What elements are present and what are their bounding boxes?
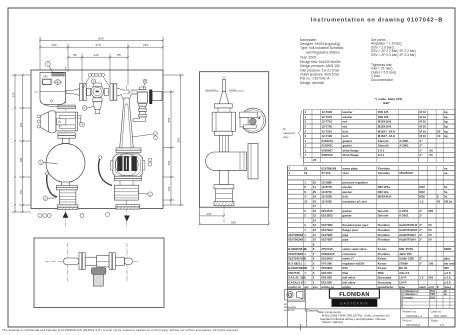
- svg-text:M12: M12: [419, 185, 425, 189]
- svg-text:Flonidan: Flonidan: [378, 238, 390, 242]
- svg-text:Alfa 3.0: Alfa 3.0: [399, 271, 410, 275]
- svg-text:25: 25: [313, 158, 317, 162]
- meter slots: [117, 156, 136, 171]
- svg-text:gasket: gasket: [343, 139, 352, 143]
- svg-text:800: 800: [177, 137, 181, 142]
- svg-text:M 10: M 10: [420, 120, 427, 124]
- svg-text:ball valve: ball valve: [342, 276, 355, 280]
- svg-text:kg: kg: [444, 134, 448, 138]
- balloon stack clamshell: [37, 115, 40, 128]
- svg-text:washer: washer: [342, 115, 354, 119]
- svg-text:Smooth: Smooth: [378, 139, 389, 143]
- svg-text:114 P: 114 P: [399, 276, 406, 280]
- svg-text:M 12: M 12: [420, 110, 427, 114]
- cone tower: [120, 98, 134, 148]
- svg-text:295: 295: [167, 160, 171, 165]
- svg-text:Documentation: Documentation: [371, 78, 393, 82]
- svg-text:gasket: gasket: [342, 209, 351, 213]
- svg-text:023-805: 023-805: [321, 276, 332, 280]
- svg-text:370: 370: [11, 92, 15, 97]
- svg-text:a 2.6: a 2.6: [444, 271, 451, 275]
- svg-text:0103503: 0103503: [321, 214, 333, 218]
- svg-text:12-0885: 12-0885: [321, 180, 332, 184]
- company logo glyphs: [285, 290, 305, 301]
- svg-text:0511: 0511: [430, 291, 436, 293]
- svg-text:and Regulators Station: and Regulators Station: [306, 50, 340, 54]
- bottom view stem down: [93, 274, 103, 286]
- pipe elbow cabinet to filter: [44, 105, 58, 107]
- balloon 8: [143, 79, 147, 89]
- pilot regulator under valve: [93, 98, 102, 114]
- svg-text:name plate: name plate: [343, 166, 358, 170]
- svg-text:bolt: bolt: [342, 195, 347, 199]
- svg-text:Alu2/070304: Alu2/070304: [399, 238, 416, 242]
- svg-text:blind flange: blind flange: [343, 148, 360, 152]
- svg-text:RC 20: RC 20: [399, 266, 408, 270]
- svg-text:kg: kg: [444, 115, 448, 119]
- svg-text:0107082: 0107082: [321, 223, 333, 227]
- svg-text:150: 150: [428, 261, 433, 265]
- svg-text:07-150: 07-150: [322, 171, 331, 175]
- svg-text:washer: washer: [342, 110, 354, 114]
- meter body M6: [111, 154, 145, 178]
- svg-text:M 12: M 12: [420, 115, 427, 119]
- svg-text:14: 14: [313, 218, 317, 222]
- svg-text:17: 17: [313, 204, 317, 208]
- ball valve V2: [114, 181, 138, 200]
- svg-text:GASTEKNIK: GASTEKNIK: [340, 301, 369, 305]
- svg-text:GP2: GP2: [43, 76, 48, 78]
- balloon 2: [39, 160, 57, 165]
- svg-text:0107087: 0107087: [321, 238, 333, 242]
- balloon stack meter: [148, 158, 152, 166]
- balloon 5: [91, 79, 96, 84]
- FLONIDAN logo: [329, 289, 379, 298]
- pipe stub right: [152, 91, 162, 100]
- svg-text:10: 10: [437, 134, 441, 138]
- svg-text:12-7990: 12-7990: [322, 110, 333, 114]
- svg-text:12-2052: 12-2052: [321, 199, 332, 203]
- svg-text:1.5: 1.5: [419, 276, 423, 280]
- hatch under middle valve: [215, 202, 233, 205]
- svg-text:rivet: rivet: [343, 171, 349, 175]
- balloon cluster bottom left: [38, 214, 84, 218]
- svg-text:meter 2": meter 2": [342, 257, 354, 261]
- svg-text:FLONIDAN: FLONIDAN: [339, 292, 369, 298]
- svg-text:Alu2/070304: Alu2/070304: [399, 233, 416, 237]
- right panel divider line: [287, 166, 289, 327]
- svg-text:18: 18: [313, 199, 317, 203]
- right vertical dimension: [163, 74, 184, 206]
- svg-text:50: 50: [428, 223, 432, 227]
- flange F1: [80, 84, 87, 101]
- svg-text:are in mm: are in mm: [284, 309, 295, 312]
- svg-text:flange spec: flange spec: [342, 228, 358, 232]
- svg-text:0107082X8: 0107082X8: [288, 233, 303, 237]
- svg-text:connector: connector: [342, 252, 357, 256]
- svg-text:bolt: bolt: [343, 129, 348, 133]
- svg-text:-50: -50: [429, 148, 434, 152]
- svg-text:M 16: M 16: [420, 134, 427, 138]
- svg-text:12-7710: 12-7710: [322, 120, 333, 124]
- svg-text:GAS AL-105: GAS AL-105: [288, 276, 305, 280]
- svg-text:bolt: bolt: [343, 134, 348, 138]
- svg-text:safety relief valve: safety relief valve: [342, 247, 366, 251]
- svg-text:Design: windmill: Design: windmill: [300, 81, 324, 85]
- svg-text:only: only: [283, 135, 289, 139]
- svg-text:SSV: SSV: [342, 266, 348, 270]
- middle view valve body: [212, 112, 235, 131]
- balloon 7: [45, 61, 53, 72]
- svg-text:Kosan: Kosan: [378, 247, 387, 251]
- svg-text:Kosan: Kosan: [378, 261, 387, 265]
- svg-text:16: 16: [313, 209, 317, 213]
- svg-text:2-5.1: 2-5.1: [378, 153, 385, 157]
- svg-text:filter: filter: [342, 271, 349, 275]
- svg-text:Kosan: Kosan: [378, 257, 387, 261]
- svg-text:Flonidan: Flonidan: [378, 223, 390, 227]
- svg-text:Smooth: Smooth: [378, 144, 389, 148]
- svg-text:0107084: 0107084: [321, 228, 333, 232]
- svg-text:0103421: 0103421: [322, 144, 334, 148]
- flow arrow up: [63, 212, 69, 218]
- svg-text:22: 22: [313, 180, 317, 184]
- drawing number cells: [403, 310, 448, 327]
- dark flange bar: [149, 90, 152, 105]
- svg-text:Flonidan: Flonidan: [378, 233, 390, 237]
- svg-text:B-2 X8211: B-2 X8211: [288, 261, 302, 265]
- svg-text:M 10: M 10: [420, 125, 427, 129]
- svg-text:023-800: 023-800: [321, 280, 332, 284]
- svg-text:229: 229: [143, 43, 148, 47]
- balloon bottom right assembly: [105, 212, 109, 216]
- svg-text:Flonidan: Flonidan: [378, 166, 390, 170]
- svg-text:12-7190: 12-7190: [322, 134, 333, 138]
- svg-text:A-2001: A-2001: [399, 209, 409, 213]
- svg-text:250: 250: [428, 276, 433, 280]
- svg-text:0107087: 0107087: [321, 233, 333, 237]
- svg-text:0102759X8: 0102759X8: [288, 252, 303, 256]
- svg-text:ea: ea: [444, 166, 448, 170]
- svg-text:kg: kg: [444, 110, 448, 114]
- bottom view frame: [34, 238, 164, 308]
- svg-text:12-7070: 12-7070: [322, 115, 333, 119]
- filter flange stack: [58, 105, 75, 109]
- svg-text:S&P: S&P: [383, 101, 389, 105]
- svg-text:DIN 126: DIN 126: [378, 115, 389, 119]
- svg-text:21: 21: [313, 185, 317, 189]
- svg-text:1 alteration x: 1 alteration x: [403, 293, 418, 296]
- left valve lever: [47, 174, 57, 197]
- svg-text:DIN 125a: DIN 125a: [378, 185, 391, 189]
- svg-text:250: 250: [428, 209, 433, 213]
- svg-text:114 P: 114 P: [399, 280, 406, 284]
- svg-text:M10X16-8: M10X16-8: [378, 120, 392, 124]
- svg-text:5a: 5a: [444, 195, 448, 199]
- svg-text:0107042x–1: 0107042x–1: [406, 314, 422, 318]
- main view frame: [31, 70, 163, 209]
- svg-text:695: 695: [231, 220, 236, 224]
- balloon 1b: [138, 192, 152, 197]
- svg-text:DIN 125: DIN 125: [378, 110, 389, 114]
- svg-text:gasket: gasket: [343, 144, 352, 148]
- svg-text:85: 85: [437, 129, 441, 133]
- filter body U4: [56, 112, 81, 131]
- svg-text:Kosan: Kosan: [378, 266, 387, 270]
- svg-text:600: 600: [444, 266, 449, 270]
- svg-text:1:5: 1:5: [440, 323, 444, 327]
- solenoid body U8: [131, 87, 148, 103]
- svg-text:a 3.6: a 3.6: [444, 280, 451, 284]
- regulator dome circle U2: [46, 144, 85, 183]
- svg-text:A-2001: A-2001: [399, 214, 409, 218]
- svg-text:A-2001: A-2001: [399, 144, 409, 148]
- svg-text:bar and: bar and: [444, 261, 455, 265]
- threaded stem: [133, 104, 146, 122]
- svg-text:This drawing is confidentia: This drawing is confidential and belongs…: [2, 328, 238, 332]
- svg-text:12-7210: 12-7210: [322, 129, 333, 133]
- svg-text:0107042-005: 0107042-005: [288, 257, 305, 261]
- svg-text:Drawing: Drawing: [308, 309, 319, 313]
- bottom view dark flange: [91, 268, 106, 275]
- svg-text:12-7700: 12-7700: [322, 125, 333, 129]
- svg-text:Jafar 200: Jafar 200: [399, 252, 412, 256]
- svg-text:Smooth: Smooth: [378, 209, 389, 213]
- svg-text:11: 11: [313, 233, 316, 237]
- svg-text:279/99: 279/99: [399, 261, 408, 265]
- svg-text:Flonidan: Flonidan: [378, 171, 390, 175]
- svg-text:nut: nut: [343, 125, 348, 129]
- svg-text:washer: washer: [341, 190, 353, 194]
- svg-text:140: 140: [93, 53, 98, 57]
- svg-text:pipe: pipe: [342, 233, 348, 237]
- svg-text:150: 150: [19, 189, 23, 194]
- middle view bottom flange: [214, 131, 232, 152]
- svg-text:x 25 dn: x 25 dn: [229, 89, 237, 91]
- valve lever: [98, 158, 112, 186]
- parts list table: [288, 110, 456, 290]
- svg-text:kg: kg: [444, 129, 448, 133]
- bottom flange left assembly: [58, 205, 79, 210]
- svg-text:M16X45-8: M16X45-8: [378, 195, 392, 199]
- svg-text:albu: albu: [444, 257, 450, 261]
- bottom view centerline v1: [67, 243, 69, 281]
- svg-text:182: 182: [19, 122, 23, 127]
- svg-text:Instrumentation on drawing: Instrumentation on drawing 0107042–B: [311, 18, 443, 24]
- transport-only note: [283, 111, 303, 159]
- svg-text:0 issued: 0 issued: [403, 297, 413, 299]
- svg-text:M10X16-8: M10X16-8: [378, 125, 392, 129]
- middle view dim strip: [198, 207, 269, 225]
- svg-text:45: 45: [437, 199, 441, 203]
- svg-text:50: 50: [428, 238, 432, 242]
- svg-text:85: 85: [73, 53, 77, 57]
- svg-text:Alu2/0703034: Alu2/0703034: [399, 228, 418, 232]
- flow arrow down: [124, 216, 130, 222]
- svg-text:insulation a/1 mm: insulation a/1 mm: [342, 199, 367, 203]
- svg-text:regulator w/SSV: regulator w/SSV: [342, 261, 364, 265]
- svg-text:2-5.1: 2-5.1: [378, 148, 385, 152]
- svg-text:Flonidan: Flonidan: [378, 228, 390, 232]
- pipe centerline: [34, 91, 161, 93]
- regulator centerline: [65, 66, 67, 226]
- svg-text:TRB: TRB: [378, 271, 384, 275]
- svg-text:ea: ea: [444, 171, 448, 175]
- dimension line 200/270/229: [39, 44, 165, 86]
- svg-text:0000007: 0000007: [322, 148, 334, 152]
- safety valve centerline: [126, 85, 128, 228]
- svg-text:pipe: pipe: [342, 238, 348, 242]
- bottom flange right assembly: [116, 205, 140, 209]
- middle view lower stem: [214, 170, 234, 205]
- svg-text:Alu2/0703042: Alu2/0703042: [399, 223, 418, 227]
- svg-text:M 16: M 16: [420, 129, 427, 133]
- svg-text:19: 19: [313, 195, 317, 199]
- svg-text:100: 100: [207, 212, 212, 216]
- middle view centerline: [223, 76, 225, 223]
- bottom view centerline horizontal: [45, 260, 140, 262]
- svg-text:15: 15: [313, 214, 317, 218]
- neck to circle: [58, 133, 75, 144]
- svg-text:198: 198: [19, 157, 23, 162]
- pipe taper right: [117, 89, 129, 96]
- middle view actuator circle: [239, 108, 265, 133]
- diaphragm clamshell: [41, 111, 56, 133]
- nameplate text block: [300, 38, 344, 85]
- revision grid: [401, 289, 455, 308]
- drawing description: [308, 309, 391, 325]
- valve body V5: [87, 83, 109, 98]
- svg-text:blind flange: blind flange: [343, 153, 360, 157]
- fold mark: [299, 324, 301, 331]
- svg-text:0107085X8: 0107085X8: [322, 166, 337, 170]
- svg-text:kg: kg: [444, 125, 448, 129]
- svg-text:2752446: 2752446: [321, 247, 333, 251]
- hatch under left flange: [59, 207, 78, 210]
- svg-text:SRL 25/T9: SRL 25/T9: [399, 247, 413, 251]
- svg-text:Brossway: Brossway: [378, 276, 392, 280]
- flange F2: [110, 84, 117, 101]
- svg-text:DIN 12a: DIN 12a: [378, 190, 389, 194]
- bottom view centerline v2: [126, 243, 128, 281]
- svg-text:Smooth: Smooth: [378, 214, 389, 218]
- svg-text:pressure regulator: pressure regulator: [342, 180, 368, 184]
- svg-text:85: 85: [117, 53, 121, 57]
- flange below meter: [114, 176, 141, 181]
- svg-text:230: 230: [167, 186, 171, 191]
- svg-text:-50: -50: [429, 153, 434, 157]
- svg-text:12-8740: 12-8740: [321, 185, 332, 189]
- svg-text:070-580: 070-580: [321, 261, 332, 265]
- svg-text:800: 800: [98, 36, 103, 40]
- svg-text:Station: Hjørring: Station: Hjørring: [322, 320, 343, 324]
- svg-text:50: 50: [428, 228, 432, 232]
- meter face circle: [116, 154, 139, 177]
- middle view frame: [200, 72, 269, 208]
- svg-text:nut: nut: [343, 120, 348, 124]
- svg-text:12-4256: 12-4256: [321, 195, 332, 199]
- svg-text:21: 21: [304, 199, 308, 203]
- svg-text:13: 13: [313, 223, 317, 227]
- svg-text:023-870: 023-870: [321, 271, 332, 275]
- dimension line 85/140/85: [67, 54, 130, 84]
- svg-text:washer: washer: [341, 185, 353, 189]
- middle view flange disc: [248, 144, 258, 179]
- control cabinet U7: [40, 72, 66, 104]
- svg-text:0107083X8: 0107083X8: [288, 238, 303, 242]
- balloon 4: [80, 118, 85, 126]
- bottom view piping: [64, 253, 133, 270]
- title block: [288, 289, 456, 328]
- balloon 1: [43, 196, 56, 201]
- svg-text:24: 24: [304, 171, 308, 175]
- hatch under right flange: [116, 206, 139, 209]
- svg-text:25 x 25 dn: 25 x 25 dn: [206, 89, 217, 91]
- pipe reducer left: [66, 89, 80, 96]
- svg-text:0103452: 0103452: [321, 257, 333, 261]
- svg-text:0502/0545: 0502/0545: [399, 171, 413, 175]
- balloon 3: [82, 106, 94, 111]
- svg-text:2 alteration xx: 2 alteration xx: [403, 290, 419, 293]
- left vertical dimensions: [12, 74, 32, 213]
- svg-text:0312: 0312: [430, 297, 436, 299]
- svg-text:Scale: Scale: [431, 319, 439, 323]
- svg-text:12: 12: [313, 228, 317, 232]
- svg-text:10: 10: [313, 238, 317, 242]
- svg-text:05384X20: 05384X20: [321, 252, 335, 256]
- svg-text:ball valve: ball valve: [342, 280, 355, 284]
- svg-text:0103473: 0103473: [322, 139, 334, 143]
- svg-text:kg: kg: [444, 120, 448, 124]
- svg-text:M12: M12: [419, 190, 425, 194]
- svg-text:GASALV-07: GASALV-07: [288, 280, 304, 284]
- svg-text:SSV = 2P 2.3 bar(/ 2P 2.: SSV = 2P 2.3 bar(/ 2P 2.3 bar): [371, 53, 416, 57]
- svg-text:0103515: 0103515: [321, 209, 333, 213]
- svg-text:0307546: 0307546: [288, 271, 300, 275]
- svg-text:0402: 0402: [430, 293, 436, 296]
- svg-text:M16X7 -X4-8: M16X7 -X4-8: [378, 129, 395, 133]
- svg-text:a 2.0: a 2.0: [444, 276, 451, 280]
- svg-text:M16X7 -X4.8: M16X7 -X4.8: [378, 134, 395, 138]
- svg-text:555: 555: [167, 117, 171, 122]
- valve under circle: [56, 182, 77, 205]
- svg-text:5a: 5a: [444, 185, 448, 189]
- svg-text:0000012: 0000012: [322, 153, 334, 157]
- svg-text:M16: M16: [419, 195, 425, 199]
- flange above meter: [116, 148, 141, 153]
- svg-text:200: 200: [51, 43, 56, 47]
- svg-text:0703821: 0703821: [321, 266, 333, 270]
- svg-text:5/8.5a: 5/8.5a: [444, 199, 452, 203]
- svg-text:Brossway: Brossway: [378, 280, 392, 284]
- middle view cylinder: [206, 152, 247, 170]
- svg-text:gasket: gasket: [342, 214, 351, 218]
- valve bolt circles: [84, 73, 111, 88]
- footnote: [375, 97, 402, 105]
- svg-text:50: 50: [428, 233, 432, 237]
- top dimension line 800: [39, 37, 165, 71]
- svg-text:0107042x4: 0107042x4: [406, 323, 421, 327]
- svg-text:12-8740: 12-8740: [321, 190, 332, 194]
- svg-text:A-2001: A-2001: [399, 139, 409, 143]
- svg-text:505–2000: 505–2000: [434, 314, 447, 318]
- svg-text:5a: 5a: [444, 190, 448, 194]
- set points text block: [371, 38, 416, 82]
- svg-text:20: 20: [313, 190, 317, 194]
- svg-text:270: 270: [95, 43, 100, 47]
- svg-text:Flonidan: Flonidan: [378, 252, 390, 256]
- elbow junction: [121, 94, 131, 100]
